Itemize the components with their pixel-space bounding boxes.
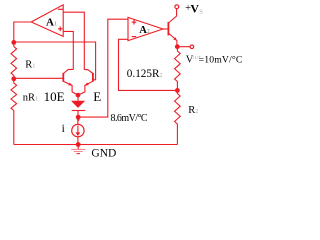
- wire A1 output to node A: [14, 22, 31, 42]
- svg-text:GND: GND: [91, 148, 116, 160]
- transistor Q2 (right, E): [92, 73, 94, 82]
- op-amp A1 (triangle, output at left apex): [31, 5, 63, 37]
- Q1 collector wire to A1 + input: [63, 31, 73, 69]
- op-amp A2 (triangle, output at right apex): [128, 17, 163, 40]
- svg-text:8.6mV/°C: 8.6mV/°C: [111, 113, 148, 124]
- svg-text:E: E: [93, 89, 101, 104]
- wire node B to Q1 base: [14, 77, 63, 79]
- svg-text:0.125R2: 0.125R2: [127, 68, 163, 80]
- wire node A to Q2 base (horizontal y=42 then down at x=95.6): [14, 42, 96, 80]
- resistor R1: [11, 42, 17, 78]
- svg-text:A1: A1: [46, 17, 57, 29]
- A1 plus input sign: [58, 27, 63, 32]
- feedback junction dot: [175, 88, 180, 93]
- svg-text:S: S: [199, 8, 203, 15]
- diode D1: [77, 95, 79, 101]
- terminal VOUT: [190, 45, 194, 49]
- emitters junction dot: [76, 93, 81, 98]
- diode D1 body: [71, 101, 85, 108]
- A2 minus input sign: [132, 36, 136, 38]
- svg-text:i: i: [62, 123, 65, 135]
- svg-text:R2: R2: [188, 105, 198, 116]
- Q1 emitter arrowhead: [68, 83, 72, 86]
- transistor Q3 (output, NPN): [167, 22, 169, 35]
- current source arrowhead: [76, 132, 81, 136]
- node A junction dot: [11, 40, 16, 45]
- A2 plus input sign: [132, 20, 137, 25]
- node B junction dot: [11, 76, 16, 81]
- ground rail wire: [14, 144, 178, 146]
- svg-text:=10mV/°C: =10mV/°C: [199, 55, 243, 66]
- current source i: [72, 124, 84, 136]
- A1 minus input sign: [58, 8, 63, 10]
- resistor R2: [175, 90, 181, 144]
- svg-text:10E: 10E: [44, 89, 65, 104]
- Q2 emitter arrowhead: [85, 82, 89, 85]
- Q3 emitter arrowhead: [173, 37, 177, 41]
- diode cathode node dot: [76, 115, 81, 120]
- svg-text:V: V: [190, 1, 199, 15]
- terminal +VS: [175, 5, 179, 9]
- wire 8.6mV node to A2 + input: [78, 19, 128, 117]
- svg-text:A2: A2: [139, 25, 150, 36]
- ground symbol: [77, 145, 79, 150]
- current direction arrowhead below node: [77, 119, 80, 121]
- resistor 0.125R2: [175, 47, 181, 91]
- svg-text:R1: R1: [25, 60, 35, 71]
- wire emitter node to VOUT terminal: [177, 46, 190, 48]
- Q2 collector wire to A1 - input: [63, 12, 84, 69]
- ground rail junction dot: [76, 142, 81, 147]
- svg-text:nR1: nR1: [23, 92, 38, 103]
- transistor Q1 (left, 10E): [62, 73, 64, 82]
- A2 feedback wire (- input) to R2 junction: [119, 39, 178, 90]
- Q3 emitter node dot: [175, 44, 180, 49]
- resistor nR1: [11, 79, 17, 145]
